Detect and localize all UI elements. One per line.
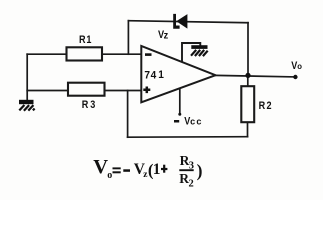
formula equals sign — [113, 167, 121, 169]
svg-text:R1: R1 — [79, 34, 92, 46]
svg-text:1: 1 — [158, 69, 164, 81]
svg-text:V: V — [93, 156, 108, 178]
output terminal dot — [293, 75, 297, 79]
label -Vcc text — [184, 116, 190, 128]
wire: bottom rail — [128, 136, 248, 139]
chassis ground at op-amp V+ pin — [191, 45, 208, 56]
resistor R2 body — [241, 86, 254, 122]
zener label Vz — [158, 29, 164, 41]
svg-text:R3: R3 — [82, 99, 97, 111]
label R2 — [259, 100, 273, 112]
-Vcc pin end dot — [178, 113, 181, 116]
wire: zener rail down to output node — [247, 23, 249, 76]
wire: R2 bottom stub — [247, 122, 249, 137]
svg-text:1: 1 — [153, 161, 161, 178]
wire: minus-input horizontal (left rail to op-amp) — [27, 53, 141, 55]
ground symbol (left, at input divider) — [19, 100, 35, 111]
zener diode Vz cathode bar with bent foot — [173, 14, 179, 29]
junction node at output/R2/zener rail — [245, 73, 250, 78]
wire: top feedback rail through zener — [128, 21, 248, 23]
op-amp label 741 — [144, 69, 156, 81]
wire: plus input down to bottom rail — [127, 91, 129, 138]
svg-text:z: z — [164, 30, 169, 42]
label Vo at output — [291, 60, 297, 72]
op-amp plus input sign — [143, 87, 150, 94]
wire: plus-input horizontal (left rail to op-amp) — [27, 90, 141, 92]
svg-text:R2: R2 — [259, 100, 273, 112]
formula plus sign — [161, 168, 167, 170]
resistor R1 body — [67, 47, 103, 60]
label R3 — [82, 99, 97, 111]
svg-text:o: o — [107, 170, 112, 181]
wire: feedback drop to minus input — [127, 21, 129, 55]
svg-text:): ) — [197, 161, 203, 181]
svg-text:2: 2 — [189, 179, 194, 190]
formula fraction bar — [179, 169, 193, 171]
wire: op-amp V+ pin to chassis ground — [182, 43, 200, 62]
label R1 — [79, 34, 92, 46]
wire: op-amp V- pin down to -Vcc — [179, 88, 181, 114]
svg-text:cc: cc — [190, 116, 203, 126]
zener diode Vz triangle (pointing left) — [176, 14, 187, 29]
wire: left rail down to ground — [26, 54, 28, 100]
svg-text:74: 74 — [144, 69, 156, 81]
resistor R3 body — [68, 83, 105, 96]
op-amp U1 741 triangle — [141, 46, 215, 102]
wire: output node down to R2 top — [247, 75, 249, 86]
formula Vo = -Vz(1 + R3/R2) — [93, 153, 202, 189]
wire: output horizontal — [216, 75, 296, 77]
formula minus sign — [123, 169, 130, 172]
op-amp minus input sign — [145, 53, 152, 56]
label -Vcc minus sign — [174, 120, 179, 123]
svg-text:o: o — [297, 62, 302, 71]
